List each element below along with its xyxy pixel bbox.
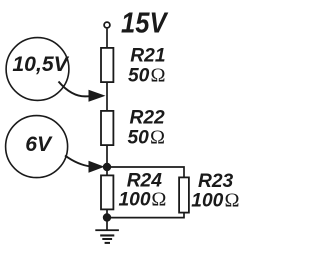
bottom node junction dot — [103, 213, 111, 221]
svg-text:100Ω: 100Ω — [119, 189, 167, 211]
svg-text:10,5V: 10,5V — [12, 53, 69, 76]
arrow from 6V bubble to 6V node — [65, 156, 91, 167]
voltmeter bubble 10,5V (circle) — [6, 38, 69, 101]
wire R21 to R22 — [106, 82, 108, 111]
wire branch bottom (R23 to bottom node) — [107, 212, 184, 218]
svg-text:50Ω: 50Ω — [128, 126, 166, 148]
node junction dot (6V node) — [103, 163, 111, 171]
wire R24 to bottom node — [106, 209, 108, 217]
resistor R23 — [179, 177, 189, 212]
svg-text:50Ω: 50Ω — [128, 64, 166, 86]
svg-text:100Ω: 100Ω — [191, 190, 239, 212]
svg-text:15V: 15V — [121, 7, 168, 39]
arrow from 10,5V bubble to wire between R21 and R22 — [59, 82, 92, 97]
terminal (open circle) at 15V supply node — [104, 22, 110, 28]
ground symbol — [95, 229, 119, 244]
ground stub wire — [106, 218, 108, 231]
wire node to R24 — [106, 167, 108, 176]
resistor R24 — [101, 175, 113, 209]
svg-text:6V: 6V — [25, 133, 53, 156]
resistor R22 — [101, 111, 113, 145]
wire branch top (node to R23) — [107, 167, 184, 178]
wire terminal to R21 — [106, 29, 108, 48]
resistor R21 — [101, 48, 113, 82]
svg-text:R21: R21 — [130, 45, 165, 66]
voltmeter bubble 6V (circle) — [6, 116, 68, 178]
wire R22 to node — [106, 145, 108, 167]
svg-text:R22: R22 — [130, 107, 166, 128]
